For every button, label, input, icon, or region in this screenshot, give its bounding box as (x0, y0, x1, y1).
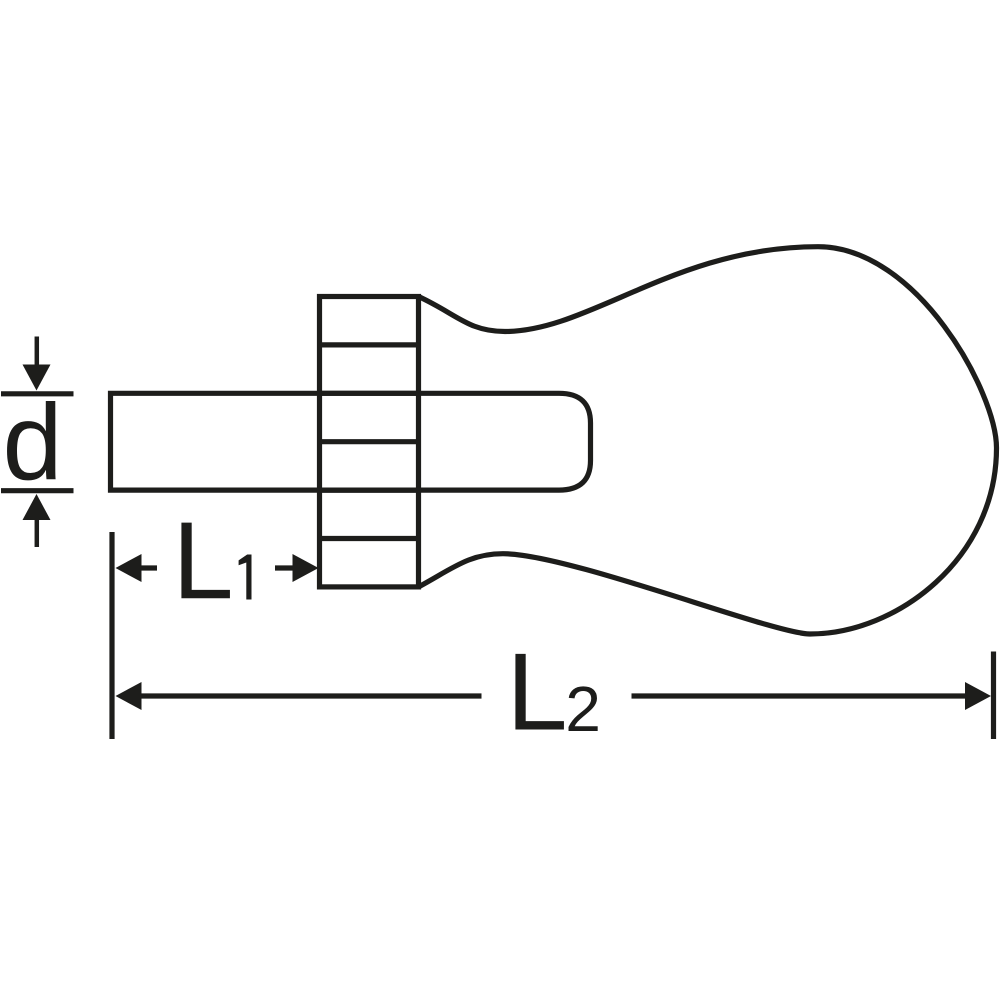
collar rib line 2 (320, 391, 419, 396)
collar rib line 4 (320, 488, 419, 493)
label L1 subscript 1 (239, 555, 252, 600)
collar (grip ferrule) outline (320, 297, 419, 587)
label d (7, 401, 56, 480)
d dimension bottom arrow (23, 494, 51, 547)
L2 dimension line left segment (116, 682, 482, 710)
collar rib line 5 (320, 536, 419, 541)
right extension line (991, 652, 996, 740)
shaft (blade) with rounded tip (111, 393, 591, 490)
L1 left arrow (116, 554, 158, 582)
left extension line (109, 532, 114, 739)
label L1 letter L (181, 523, 230, 599)
collar rib line 1 (320, 342, 419, 347)
collar rib line 3 (320, 439, 419, 444)
handle outline (419, 247, 997, 634)
label L2 letter L (515, 654, 564, 730)
L2 dimension line right segment (632, 682, 992, 710)
d dimension top arrow (23, 337, 51, 391)
d dimension bottom tick (1, 488, 74, 493)
L1 right arrow (275, 554, 319, 582)
label L2 subscript 2 (569, 686, 598, 731)
d dimension top tick (1, 391, 74, 396)
